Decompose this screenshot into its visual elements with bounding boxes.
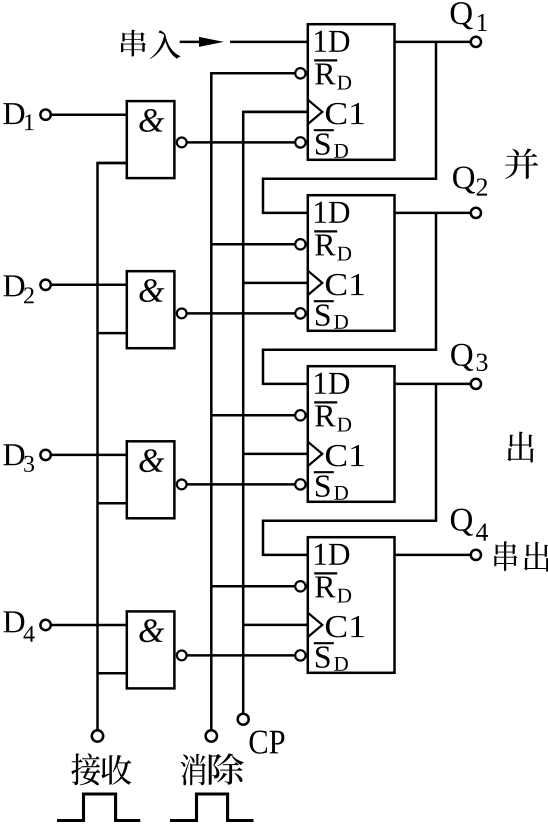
wire gate G4 output to FF S_D xyxy=(187,654,296,657)
wire FF4 output to Q4 xyxy=(395,554,471,557)
label clear 消除 xyxy=(181,753,244,785)
wire Q3 feedback to FF4 1D xyxy=(263,384,436,555)
flip-flop FF2 xyxy=(295,195,394,331)
clear terminal xyxy=(206,730,217,741)
wire receive branch to gate G4 input xyxy=(98,672,127,675)
label parallel 并 xyxy=(505,148,538,178)
clear pulse waveform xyxy=(170,794,254,821)
wire FF3 output to Q3 xyxy=(395,383,471,386)
label out 出 xyxy=(507,432,534,463)
label serial-in 串入 xyxy=(121,30,180,59)
wire D4 to gate xyxy=(51,624,127,627)
wire clear branch to FF2 R_D xyxy=(211,243,295,246)
input terminal D4 xyxy=(3,611,50,641)
wire receive branch to gate G1 input xyxy=(98,162,127,165)
wire FF1 output to Q1 xyxy=(395,41,471,44)
wire D2 to gate xyxy=(51,284,127,287)
label serial-out 串出 xyxy=(494,541,548,571)
NAND gate G1 xyxy=(127,101,187,178)
wire CP branch to FF1 C1 xyxy=(243,111,308,114)
NAND gate G2 xyxy=(127,271,187,348)
flip-flop FF4 xyxy=(295,537,394,673)
wire gate G1 output to FF S_D xyxy=(187,141,296,144)
wire gate G3 output to FF S_D xyxy=(187,483,296,486)
receive pulse waveform xyxy=(57,794,140,821)
flip-flop FF1 xyxy=(295,24,394,160)
wire CP branch to FF4 C1 xyxy=(243,624,308,627)
receive bus wire xyxy=(98,163,127,730)
wire receive branch to gate G2 input xyxy=(98,332,127,335)
input terminal D2 xyxy=(3,275,50,303)
wire receive branch to gate G3 input xyxy=(98,502,127,505)
wire D1 to gate xyxy=(51,113,127,116)
wire clear branch to FF1 R_D xyxy=(211,72,295,75)
receive terminal xyxy=(92,730,103,741)
wire serial-in to FF1 1D xyxy=(230,41,308,44)
label CP xyxy=(250,731,285,754)
output terminal Q4 xyxy=(451,509,488,560)
NAND gate G4 xyxy=(127,611,187,688)
output terminal Q1 xyxy=(451,2,487,47)
wire Q1 feedback to FF2 1D xyxy=(263,42,436,213)
wire FF2 output to Q2 xyxy=(395,212,471,215)
input terminal D1 xyxy=(3,103,50,130)
wire gate G2 output to FF S_D xyxy=(187,312,296,315)
output terminal Q3 xyxy=(451,344,487,389)
output terminal Q2 xyxy=(453,166,487,218)
wire CP branch to FF2 C1 xyxy=(243,282,308,285)
wire clear branch to FF3 R_D xyxy=(211,414,295,417)
wire CP branch to FF3 C1 xyxy=(243,453,308,456)
input terminal D3 xyxy=(3,444,50,472)
serial input arrow xyxy=(180,37,224,47)
NAND gate G3 xyxy=(127,441,187,518)
CP bus wire xyxy=(243,112,308,714)
CP terminal xyxy=(238,714,249,725)
wire D3 to gate xyxy=(51,454,127,457)
wire Q2 feedback to FF3 1D xyxy=(263,213,436,384)
flip-flop FF3 xyxy=(295,366,394,502)
clear bus wire xyxy=(211,73,295,730)
label receive 接收 xyxy=(71,753,131,785)
wire clear branch to FF4 R_D xyxy=(211,585,295,588)
